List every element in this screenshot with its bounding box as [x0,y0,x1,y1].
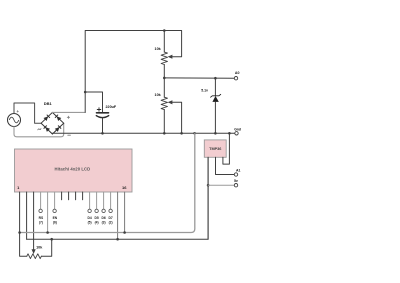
bridge minus label [68,134,71,136]
svg-text:EN: EN [53,216,58,220]
terminal D4 [88,209,91,212]
svg-text:D6: D6 [101,216,105,220]
LCD pin12 D5 wire [96,192,98,209]
LCD pin14 D7 wire [110,192,112,209]
capacitor C1 plates [97,112,109,114]
svg-text:10k: 10k [155,47,162,51]
TMP36 gnd pin hook [223,133,230,164]
svg-text:(4): (4) [95,221,99,225]
zener diode D1 [214,78,216,96]
svg-text:Hitachi 4x20 LCD: Hitachi 4x20 LCD [54,167,90,172]
bridge diode upper-right [55,115,61,121]
node pin1-busA [18,231,21,234]
TMP36 vs pin down to bus B [207,157,209,239]
svg-text:5v: 5v [234,179,238,183]
terminal A0 [234,77,237,80]
pot1 wiper arrow [168,55,173,59]
LCD pin16 wire to gnd bus A [124,192,126,233]
terminal RS [39,209,42,212]
node pin5-busA [46,231,49,234]
wire 5v bus B [27,157,209,239]
LCD pin7 stub [61,192,63,200]
LCD pin1 wire to gnd bus A [19,192,21,233]
wire AC-top to bridge AC1 [14,103,41,123]
LCD pin11 D4 wire [89,192,91,209]
svg-text:10k: 10k [36,245,43,249]
wire bridge-plus to rail [52,111,85,113]
TMP36 vout pin to A1 [216,157,235,174]
pot2 wiper arrow [168,100,173,104]
wire mid to A0 [164,77,234,79]
capacitor C1 bottom lead [102,118,104,134]
svg-text:(7): (7) [39,221,43,225]
LCD pin6 EN wire [54,192,56,209]
node pot2-bus [163,132,166,135]
svg-text:RS: RS [39,216,44,220]
pot2 wiper loop [171,102,181,133]
node potright-busB [50,238,53,241]
node wiper2-bus [180,132,183,135]
AC source plus mark [17,110,19,112]
LCD pin8 stub [68,192,70,200]
terminal D6 [102,209,105,212]
node tmp36gnd-bus [228,132,231,135]
svg-text:A0: A0 [235,71,240,75]
LCD pin3 wire to contrast wiper [33,192,35,250]
terminal Gnd [235,132,238,135]
svg-text:DB1: DB1 [44,101,53,106]
LCD pin2 wire to 5v bus B [26,192,28,239]
LCD pin10 stub [82,192,84,200]
bridge AC tilde label [38,129,41,130]
potentiometer R1 10k body [163,31,165,53]
svg-text:(5): (5) [88,221,92,225]
node 5v junction [207,184,210,187]
svg-text:D5: D5 [94,216,98,220]
LCD pin9 stub [75,192,77,200]
terminal D7 [109,209,112,212]
capacitor plus label [97,109,101,111]
LCD pin13 D6 wire [103,192,105,209]
svg-text:(6): (6) [53,221,57,225]
wire to 5v terminal [208,184,234,186]
svg-text:A1: A1 [236,168,241,172]
wire AC-bottom to bridge AC2 [14,123,64,137]
potentiometer R3 10k contrast [20,233,27,257]
terminal A1 [234,173,237,176]
AC source V1 [8,114,21,127]
bridge diode lower-right [55,125,61,131]
terminal D5 [95,209,98,212]
sensor TMP36 body [204,140,226,157]
terminal 5v [234,184,237,187]
wire +rail vertical and top [85,31,164,113]
node rail-pot1 [163,29,166,32]
svg-text:D4: D4 [87,216,91,220]
svg-text:16: 16 [122,185,127,190]
svg-text:220uF: 220uF [106,105,117,109]
wire cap branch [85,92,102,112]
bridge rectifier DB1 [41,112,64,134]
potentiometer R2 10k body [163,78,165,97]
LCD pin15 wire to 5v bus B [117,192,119,239]
node pin16-busA [123,231,126,234]
svg-text:(2): (2) [109,221,113,225]
bridge diode lower-left [44,125,50,131]
LCD module Hitachi 4x20 [15,149,133,192]
pot3 wiper arrow [32,249,36,254]
terminal EN [53,209,56,212]
node zener top [214,77,217,80]
node pin15-busB [116,238,119,241]
svg-text:5.1v: 5.1v [201,89,208,93]
wire pot1 wiper loop [164,31,181,57]
node cap-rail [84,91,87,94]
node mid divider [163,77,166,80]
bridge plus label [67,116,69,118]
node zener-bus [214,132,217,135]
node cap-bus [101,132,104,135]
svg-text:10k: 10k [155,93,162,97]
wire ground bus [52,132,234,134]
svg-text:D7: D7 [108,216,112,220]
svg-text:TMP36: TMP36 [209,147,221,151]
svg-text:Gnd: Gnd [234,127,241,131]
node greydrop-bus [193,132,196,135]
LCD pin5 RW wire to gnd bus A [47,192,49,233]
wire gnd bus A [20,133,195,232]
bridge diode upper-left [43,115,49,121]
LCD pin4 RS wire [40,192,42,209]
svg-text:(3): (3) [102,221,106,225]
